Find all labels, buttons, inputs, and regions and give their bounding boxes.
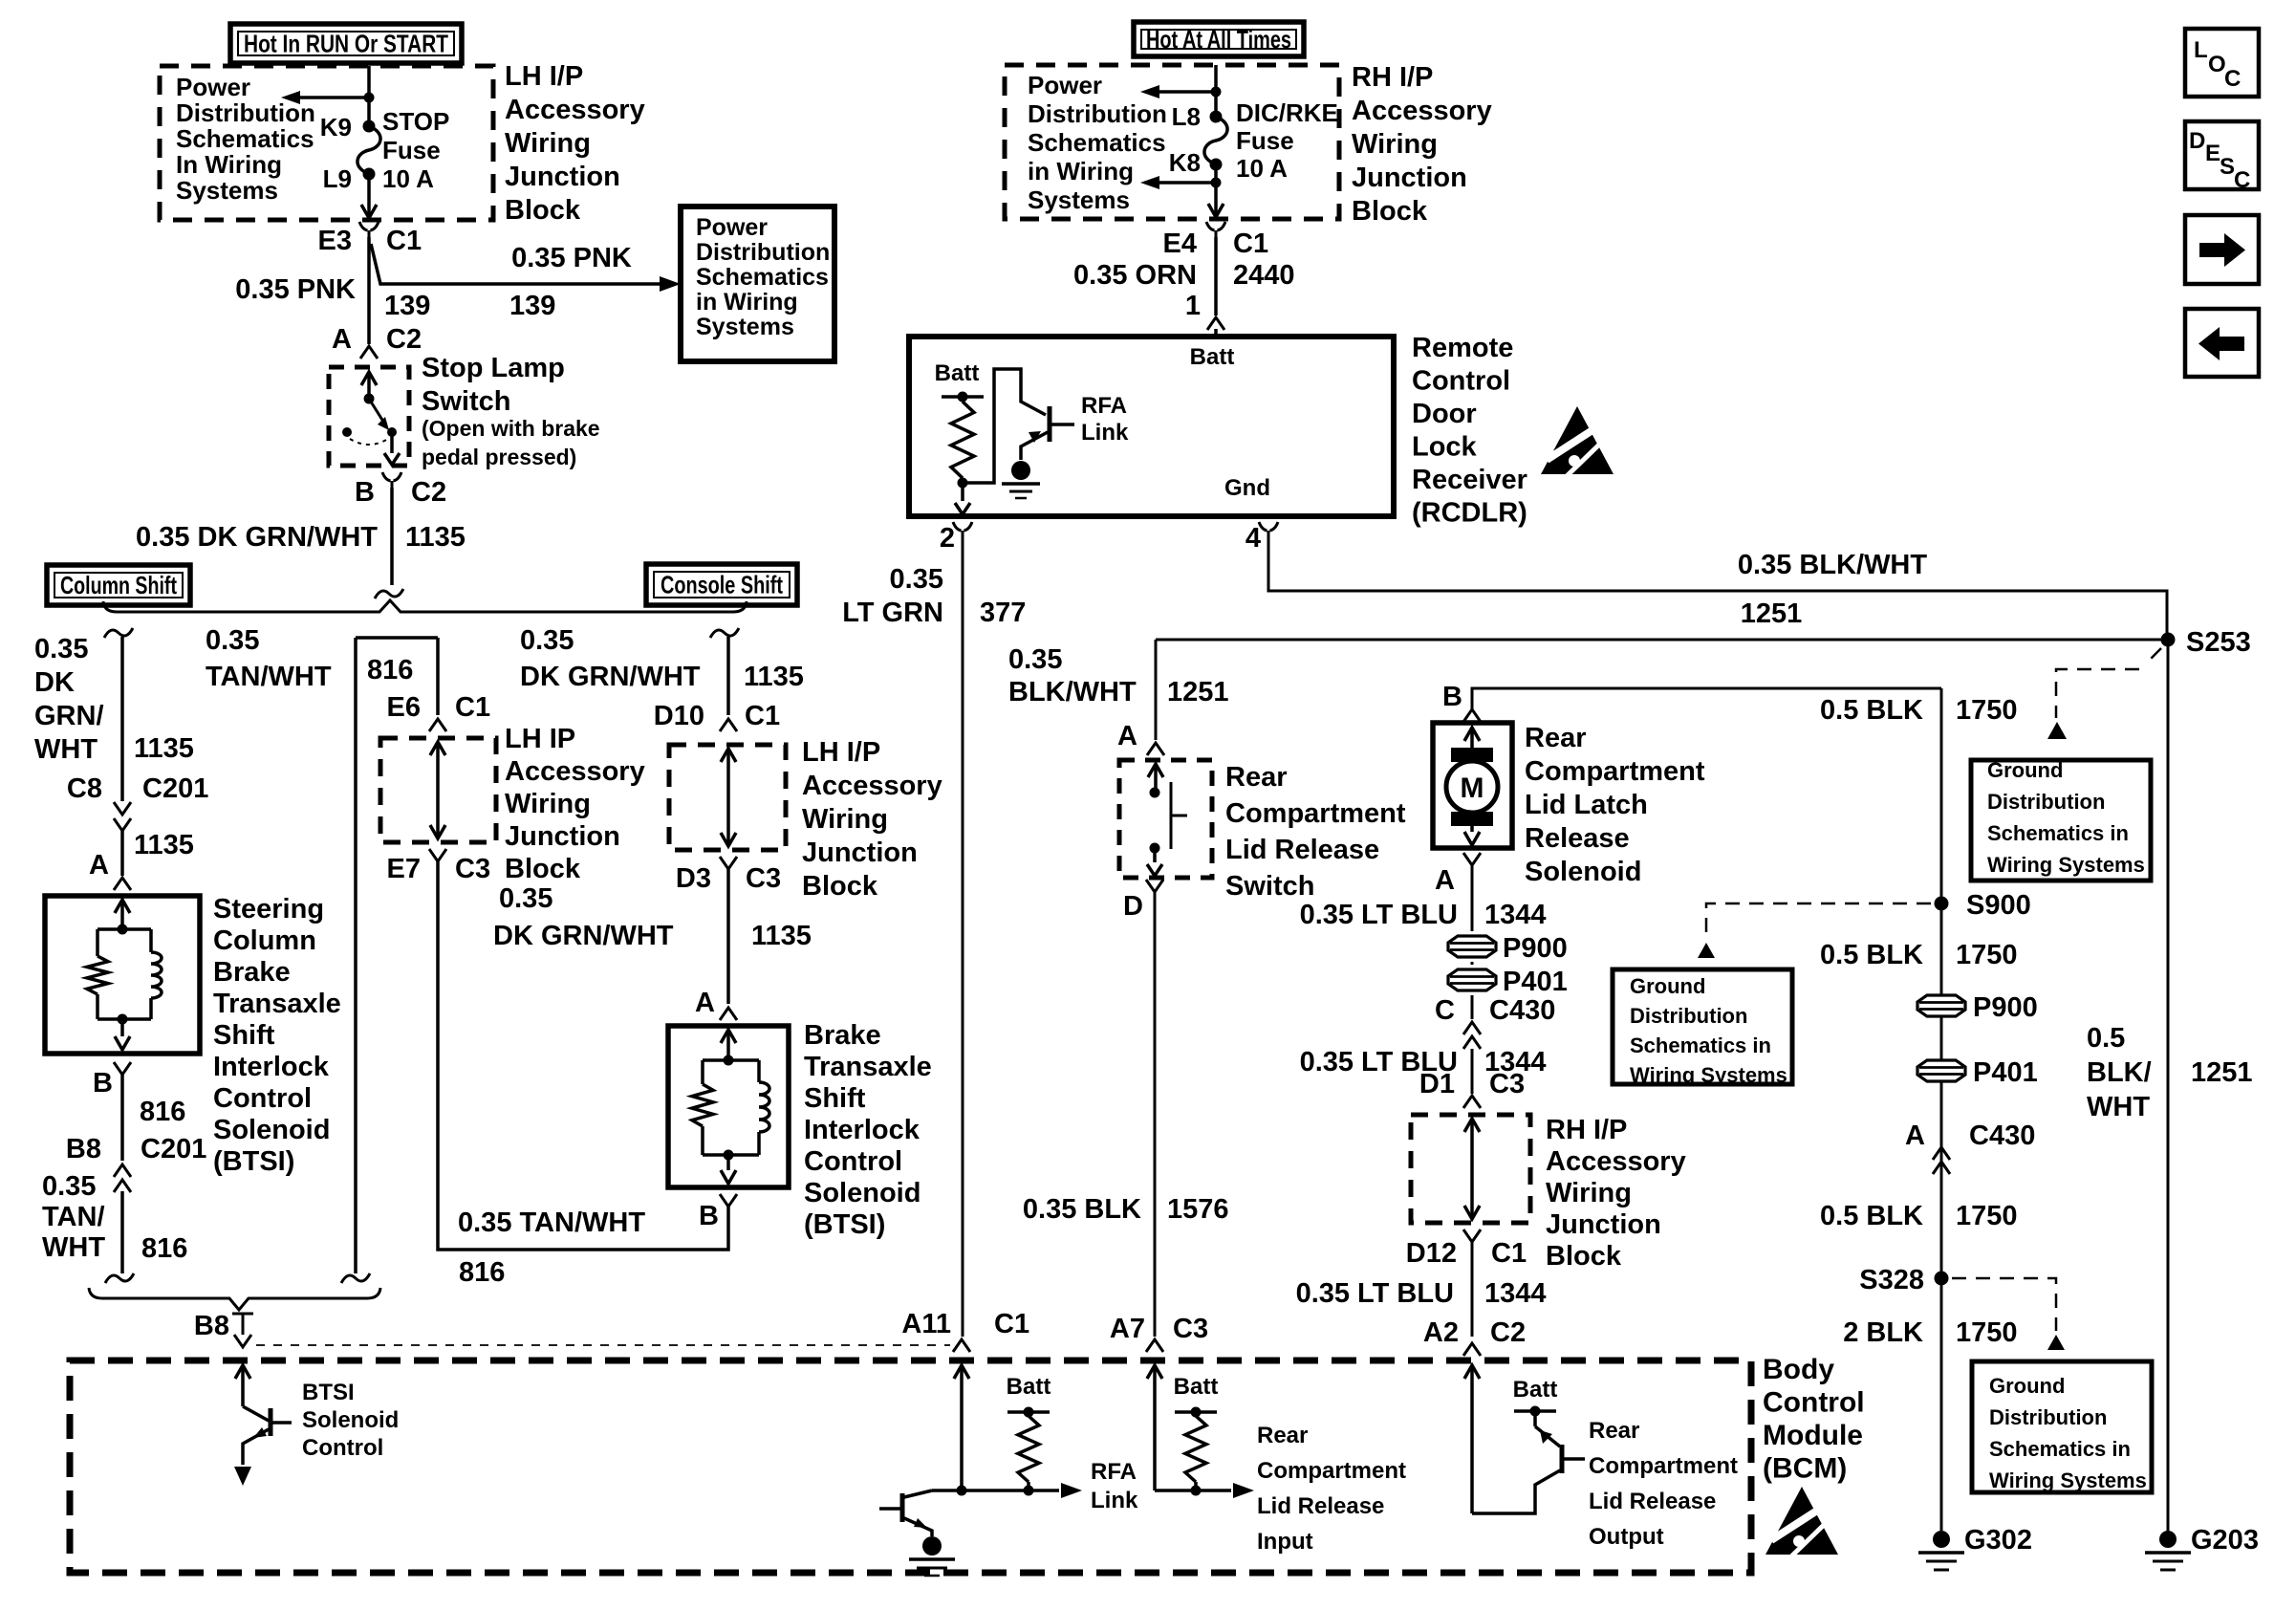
svg-text:Module: Module (1763, 1420, 1863, 1451)
svg-text:BTSI: BTSI (302, 1380, 355, 1405)
nav icon box prev-page arrow (2185, 309, 2259, 377)
svg-text:C1: C1 (386, 226, 422, 256)
internal resistor R1 (951, 402, 974, 478)
transistor Q1 base bar (1048, 406, 1052, 442)
svg-text:Interlock: Interlock (804, 1115, 921, 1145)
svg-text:DK GRN/WHT: DK GRN/WHT (520, 662, 701, 692)
svg-text:Wiring: Wiring (505, 789, 591, 819)
transistor Q3 RFA link driver (904, 1490, 932, 1497)
junction R2 to rail (1024, 1486, 1034, 1496)
junction top of parallel network (118, 925, 128, 935)
svg-text:1251: 1251 (1741, 598, 1803, 629)
svg-text:1135: 1135 (405, 522, 466, 553)
switch pivot contact (364, 394, 375, 404)
svg-text:RH I/P: RH I/P (1546, 1115, 1627, 1145)
svg-text:Switch: Switch (422, 386, 510, 417)
svg-text:D12: D12 (1406, 1238, 1457, 1269)
svg-text:Control: Control (1412, 366, 1510, 397)
svg-text:K8: K8 (1169, 148, 1201, 177)
svg-text:P401: P401 (1503, 967, 1568, 997)
wire: fuse output to block edge with arrow (367, 174, 371, 218)
svg-text:DK: DK (34, 667, 75, 698)
svg-text:C1: C1 (1233, 228, 1268, 259)
connector E4 / C1 (1206, 222, 1215, 230)
svg-text:Block: Block (802, 871, 878, 902)
wire: feed into fuse block (367, 66, 371, 127)
svg-text:C201: C201 (142, 773, 208, 804)
svg-text:(RCDLR): (RCDLR) (1412, 498, 1527, 529)
svg-text:A: A (695, 988, 715, 1018)
svg-text:(BCM): (BCM) (1763, 1453, 1847, 1485)
svg-text:Accessory: Accessory (505, 756, 645, 787)
svg-text:1135: 1135 (744, 662, 804, 692)
svg-text:BLK/: BLK/ (2087, 1057, 2152, 1088)
switch lower contact (1150, 843, 1160, 854)
internal ground (1011, 461, 1030, 480)
svg-text:C: C (2224, 66, 2241, 92)
svg-text:O: O (2208, 52, 2226, 77)
svg-text:Link: Link (1091, 1488, 1138, 1513)
svg-text:0.35: 0.35 (890, 564, 943, 595)
svg-text:816: 816 (140, 1097, 185, 1127)
switch output arrow (1153, 848, 1157, 862)
connector E7 / C3 (429, 849, 446, 861)
svg-text:(BTSI): (BTSI) (213, 1146, 294, 1177)
wire: E7 to console BTSI pin B (0.35 TAN/WHT 816) (438, 861, 728, 1250)
BCM boundary extension (fine dashed) (256, 1344, 950, 1346)
svg-text:0.35: 0.35 (42, 1171, 96, 1202)
svg-text:0.35 TAN/WHT: 0.35 TAN/WHT (458, 1207, 645, 1238)
header box: Hot In RUN Or START (230, 24, 462, 63)
svg-text:B: B (1442, 682, 1462, 712)
svg-text:LH IP: LH IP (505, 724, 575, 754)
solenoid coil L (console BTSI) (757, 1060, 761, 1082)
wire break squiggle (column branch) (104, 628, 133, 638)
svg-text:Rear: Rear (1257, 1423, 1308, 1448)
parallel network top bar (97, 927, 151, 931)
wire: D3 to console BTSI pin A (726, 869, 730, 1004)
svg-text:RFA: RFA (1081, 393, 1127, 419)
svg-text:Shift: Shift (804, 1083, 866, 1114)
svg-text:C430: C430 (1969, 1120, 2035, 1151)
console brake transaxle shift interlock solenoid box (668, 1026, 789, 1187)
switch right contact (387, 427, 397, 437)
svg-text:Accessory: Accessory (1352, 96, 1492, 126)
svg-text:4: 4 (1245, 523, 1261, 554)
svg-text:Release: Release (1525, 823, 1630, 854)
svg-text:Input: Input (1257, 1529, 1313, 1555)
svg-text:1135: 1135 (134, 830, 194, 860)
svg-text:Junction: Junction (802, 838, 918, 868)
wire: C201 to join brace (120, 1191, 124, 1273)
splice S253 (2161, 633, 2176, 647)
svg-text:Remote: Remote (1412, 333, 1513, 363)
inline connector P401 (ground) (1917, 1060, 1965, 1081)
wire: C201 to BTSI pin A (120, 831, 124, 876)
wire break squiggle (105, 1273, 134, 1283)
svg-text:E3: E3 (318, 226, 352, 256)
svg-text:A: A (1905, 1120, 1925, 1151)
svg-text:LH I/P: LH I/P (505, 61, 583, 92)
pin B / connector C2 (382, 472, 391, 481)
motor M symbol (1446, 761, 1498, 813)
svg-text:S253: S253 (2186, 627, 2251, 658)
svg-text:Ground: Ground (1987, 758, 2063, 782)
svg-text:Junction: Junction (505, 162, 620, 192)
svg-text:Schematics in: Schematics in (1989, 1437, 2131, 1461)
svg-text:In Wiring: In Wiring (176, 150, 282, 179)
svg-text:P900: P900 (1973, 992, 2038, 1023)
svg-text:C201: C201 (141, 1134, 206, 1164)
connector D3 / C3 (720, 857, 737, 869)
wire: P401 to C430 (1471, 995, 1474, 1019)
switch travel arc (dotted) (350, 439, 388, 445)
svg-text:Power: Power (696, 214, 768, 241)
svg-text:Schematics: Schematics (176, 124, 314, 153)
wire: S253 to rear compartment lid release switch (1156, 639, 2168, 642)
svg-text:Link: Link (1081, 420, 1129, 446)
motor brush bar bottom (1451, 812, 1493, 826)
svg-text:1: 1 (1185, 291, 1201, 321)
svg-text:(BTSI): (BTSI) (804, 1209, 885, 1240)
svg-text:816: 816 (141, 1233, 187, 1264)
internal rail RFA link junction (957, 1486, 967, 1496)
svg-text:D: D (2189, 128, 2205, 154)
svg-text:RH I/P: RH I/P (1352, 62, 1433, 93)
svg-text:WHT: WHT (34, 734, 97, 765)
pin 2 of RCDLR (953, 522, 962, 531)
svg-text:Control: Control (302, 1435, 383, 1461)
svg-text:816: 816 (367, 655, 413, 685)
svg-text:0.35 LT BLU: 0.35 LT BLU (1296, 1278, 1454, 1309)
svg-text:Fuse: Fuse (382, 136, 441, 164)
junction bottom of parallel network (724, 1150, 734, 1161)
svg-text:LH I/P: LH I/P (802, 737, 880, 768)
svg-text:Distribution: Distribution (1989, 1405, 2107, 1429)
svg-text:C2: C2 (1490, 1317, 1526, 1348)
svg-text:Accessory: Accessory (1546, 1146, 1686, 1177)
svg-text:Systems: Systems (1028, 185, 1130, 214)
svg-text:G203: G203 (2191, 1525, 2259, 1556)
svg-text:B: B (93, 1068, 113, 1099)
ground distribution schematics reference box (upper) (1971, 760, 2151, 881)
splice S900 (1935, 897, 1949, 911)
svg-text:L: L (2194, 37, 2208, 63)
BTSI solenoid output arrow (120, 1019, 124, 1036)
wire: S253 down to G203, 0.5 BLK/WHT 1251 (2167, 640, 2170, 1531)
ground G302 (1933, 1531, 1950, 1548)
svg-text:S: S (2220, 154, 2235, 180)
connector D12 / C1 (1463, 1229, 1481, 1242)
svg-text:Systems: Systems (696, 314, 794, 340)
pin B of steering BTSI (114, 1062, 131, 1075)
switch arm (369, 399, 385, 424)
internal wire RFA link (932, 1489, 1059, 1492)
svg-text:1251: 1251 (1167, 677, 1229, 707)
svg-text:0.35: 0.35 (206, 625, 259, 656)
resistor R (console BTSI) (701, 1060, 704, 1084)
svg-text:Block: Block (505, 195, 581, 226)
svg-text:Power: Power (1028, 71, 1102, 99)
svg-text:Rear: Rear (1525, 723, 1587, 753)
svg-text:Gnd: Gnd (1224, 475, 1270, 501)
power distribution schematics reference box (681, 207, 834, 361)
svg-text:Column: Column (213, 925, 316, 956)
svg-text:A: A (332, 324, 352, 355)
svg-text:Junction: Junction (505, 821, 620, 852)
svg-text:C3: C3 (1173, 1314, 1208, 1344)
wire between P900 and P401 (1471, 962, 1474, 965)
svg-text:C3: C3 (746, 863, 781, 894)
svg-text:B: B (699, 1201, 719, 1231)
wire break squiggle (console branch) (710, 628, 739, 638)
svg-text:DK GRN/WHT: DK GRN/WHT (493, 921, 674, 951)
wire: drop to lid release switch pin A (1155, 640, 1158, 740)
svg-text:Console Shift: Console Shift (661, 571, 783, 599)
switch wire in with arrow (361, 372, 377, 385)
svg-text:Solenoid: Solenoid (302, 1407, 399, 1433)
svg-text:Receiver: Receiver (1412, 465, 1527, 495)
svg-text:RFA: RFA (1091, 1459, 1137, 1485)
svg-text:L9: L9 (323, 164, 352, 193)
svg-text:Block: Block (505, 854, 581, 884)
svg-text:1750: 1750 (1956, 1317, 2018, 1348)
svg-text:BLK/WHT: BLK/WHT (1008, 677, 1137, 707)
wire: arrow to power distribution (upper) (1153, 90, 1216, 94)
internal wire to transistor (963, 369, 1046, 483)
junction block feed-through arrows (721, 749, 736, 762)
svg-text:Lid Release: Lid Release (1589, 1489, 1716, 1514)
svg-text:Column Shift: Column Shift (60, 571, 177, 599)
BCM input arrow B8 (235, 1365, 250, 1379)
svg-text:Hot At All Times: Hot At All Times (1146, 25, 1291, 54)
ground distribution reference from S328 (dashed) (1952, 1278, 2056, 1331)
svg-text:Power: Power (176, 73, 250, 101)
inline connector P401 (1448, 969, 1496, 990)
svg-text:Transaxle: Transaxle (804, 1052, 932, 1082)
svg-text:1750: 1750 (1956, 1201, 2018, 1231)
svg-text:Distribution: Distribution (696, 239, 830, 266)
wire: fuse output to block edge with arrow (1214, 163, 1218, 217)
ground distribution schematics reference box (lower) (1972, 1361, 2152, 1492)
svg-text:B: B (355, 477, 375, 508)
svg-text:1750: 1750 (1956, 695, 2018, 726)
svg-text:139: 139 (509, 291, 555, 321)
svg-text:377: 377 (980, 598, 1026, 628)
svg-text:Batt: Batt (1513, 1377, 1558, 1403)
svg-text:Interlock: Interlock (213, 1052, 330, 1082)
junction block feed-through arrows (430, 742, 445, 755)
remote control door lock receiver U1 (RCDLR) box (909, 337, 1394, 516)
wire: stop lamp switch output 0.35 DK GRN/WHT 1135 (390, 488, 394, 585)
svg-text:Stop Lamp: Stop Lamp (422, 353, 565, 383)
svg-text:E4: E4 (1163, 228, 1197, 259)
svg-text:Ground: Ground (1630, 974, 1705, 998)
wire: D12 to BCM A2, 0.35 LT BLU 1344 (1471, 1242, 1474, 1337)
solenoid coil L1 (149, 929, 153, 952)
svg-text:Fuse: Fuse (1236, 126, 1294, 155)
wire: E6 pin stub (436, 638, 440, 715)
svg-text:Body: Body (1763, 1354, 1834, 1385)
solenoid input arrow (1464, 728, 1480, 741)
stop lamp switch S1 dashed outline (329, 367, 409, 466)
svg-text:Rear: Rear (1225, 762, 1288, 793)
internal ground (RFA driver) (922, 1536, 942, 1556)
svg-text:Door: Door (1412, 399, 1477, 429)
LH IP accessory wiring junction block (E6/E7) dashed outline (380, 738, 496, 842)
BCM input arrow A2 (1464, 1365, 1480, 1379)
svg-text:E: E (2205, 141, 2220, 166)
pin 4 of RCDLR (1259, 522, 1267, 531)
RH I/P accessory wiring junction block (D1/D12) dashed outline (1411, 1115, 1530, 1223)
svg-text:0.35 BLK: 0.35 BLK (1023, 1194, 1141, 1225)
svg-text:C3: C3 (1489, 1069, 1525, 1099)
svg-text:P401: P401 (1973, 1057, 2038, 1088)
svg-text:0.35: 0.35 (34, 634, 88, 664)
svg-text:0.35 PNK: 0.35 PNK (511, 243, 632, 273)
svg-text:Distribution: Distribution (176, 98, 315, 127)
svg-text:0.5 BLK: 0.5 BLK (1820, 940, 1923, 970)
junction top of parallel network (724, 1055, 734, 1066)
svg-text:E6: E6 (387, 692, 421, 723)
BTSI output arrow (726, 1155, 730, 1170)
svg-text:Control: Control (804, 1146, 902, 1177)
svg-text:Block: Block (1352, 196, 1428, 227)
nav icon box LOC (2185, 29, 2259, 97)
svg-text:Shift: Shift (213, 1020, 275, 1051)
svg-text:C3: C3 (455, 854, 490, 884)
option box: Console Shift (646, 564, 797, 605)
svg-text:C8: C8 (67, 773, 102, 804)
svg-text:0.35 DK GRN/WHT: 0.35 DK GRN/WHT (136, 522, 378, 553)
svg-text:M: M (1461, 772, 1484, 804)
fuse F1 STOP 10A (357, 126, 380, 174)
pin B8 of BCM (232, 1313, 253, 1316)
svg-text:0.35 BLK/WHT: 0.35 BLK/WHT (1738, 550, 1927, 580)
switch output wire with arrow (390, 432, 394, 453)
brace joining column/console BTSI returns to BCM B8 (89, 1288, 380, 1310)
inline connector P900 (1448, 936, 1496, 957)
svg-text:S328: S328 (1859, 1265, 1924, 1295)
resistor R3 lid release input pullup (1185, 1416, 1206, 1482)
nav icon box DESC (2185, 121, 2259, 189)
svg-text:Block: Block (1546, 1241, 1622, 1272)
svg-text:Solenoid: Solenoid (1525, 857, 1641, 887)
svg-text:Junction: Junction (1352, 163, 1467, 193)
svg-text:1344: 1344 (1484, 1278, 1547, 1309)
svg-text:D1: D1 (1419, 1069, 1455, 1099)
svg-text:Distribution: Distribution (1987, 790, 2105, 814)
svg-text:C2: C2 (386, 324, 422, 355)
svg-text:Output: Output (1589, 1524, 1664, 1550)
switch left contact (342, 427, 352, 437)
internal Batt rail (942, 395, 984, 399)
svg-text:Solenoid: Solenoid (213, 1115, 330, 1145)
wire break squiggle (816 wire bottom) (341, 1273, 370, 1283)
svg-text:1750: 1750 (1956, 940, 2018, 970)
option box: Column Shift (47, 565, 190, 605)
svg-text:0.35 PNK: 0.35 PNK (235, 274, 356, 305)
switch input arrow (1148, 764, 1163, 777)
junction bottom of parallel network (118, 1014, 128, 1025)
svg-text:139: 139 (384, 291, 430, 321)
ground G203 (2159, 1531, 2177, 1548)
svg-text:C1: C1 (1491, 1238, 1527, 1269)
internal wire pin2 output with arrow (961, 483, 964, 501)
inline connector P900 (ground) (1917, 995, 1965, 1016)
svg-text:0.35: 0.35 (520, 625, 574, 656)
svg-text:Wiring: Wiring (505, 128, 591, 159)
svg-text:in Wiring: in Wiring (696, 289, 798, 315)
wire: branch to power distribution schematics (0.35 PNK 139) (371, 244, 669, 284)
svg-text:Schematics: Schematics (696, 264, 829, 291)
svg-text:1135: 1135 (751, 921, 812, 951)
svg-text:Batt: Batt (1174, 1374, 1219, 1400)
svg-text:Compartment: Compartment (1257, 1458, 1406, 1484)
LH I/P junction block (fuse block) dashed outline (160, 66, 493, 220)
wire: C430 to D1, 0.35 LT BLU 1344 (1471, 1049, 1474, 1094)
junction on feed wire (364, 93, 375, 103)
svg-text:0.5 BLK: 0.5 BLK (1820, 1201, 1923, 1231)
svg-text:D10: D10 (654, 701, 704, 731)
BCM input arrow A7 (1147, 1365, 1162, 1379)
svg-text:C1: C1 (994, 1309, 1029, 1339)
parallel network bottom bar (703, 1153, 759, 1157)
transistor Q4 lid release output driver (1533, 1411, 1537, 1426)
svg-text:D3: D3 (676, 863, 711, 894)
transistor Q1 base lead RFA Link (1050, 423, 1074, 426)
resistor R (BTSI suppression) (96, 929, 99, 956)
svg-text:0.35: 0.35 (1008, 644, 1062, 675)
svg-text:Wiring Systems: Wiring Systems (1630, 1063, 1787, 1087)
wire: console branch 0.35 DK GRN/WHT 1135 (726, 637, 730, 715)
wire: 0.35 TAN/WHT 816 from E6 junction header (356, 636, 438, 640)
svg-text:LT GRN: LT GRN (842, 598, 943, 628)
BCM input arrow A11 (954, 1365, 969, 1379)
svg-text:Wiring Systems: Wiring Systems (1989, 1469, 2147, 1492)
LH I/P accessory wiring junction block (D10/D3) dashed outline (669, 745, 786, 850)
wire: arrow to power distribution (lower) (1153, 181, 1216, 185)
svg-text:0.35 ORN: 0.35 ORN (1073, 260, 1197, 291)
header box: Hot At All Times (1134, 22, 1304, 56)
fuse F2 DIC/RKE 10A (1204, 117, 1227, 164)
svg-text:10 A: 10 A (382, 164, 434, 193)
svg-text:B8: B8 (66, 1134, 101, 1164)
ESD sensitive symbol (1541, 406, 1614, 476)
wire: E3 to branch point (367, 237, 371, 344)
svg-text:1251: 1251 (2191, 1057, 2253, 1088)
svg-text:DIC/RKE: DIC/RKE (1236, 98, 1338, 127)
svg-text:Steering: Steering (213, 894, 324, 925)
ground distribution reference from S253 (dashed) (2056, 648, 2161, 718)
svg-text:S900: S900 (1966, 890, 2031, 921)
ground distribution schematics reference box (middle) (1613, 969, 1792, 1084)
svg-text:(Open with brake: (Open with brake (422, 416, 600, 441)
svg-text:Ground: Ground (1989, 1374, 2065, 1398)
svg-text:Transaxle: Transaxle (213, 989, 341, 1019)
svg-text:Lid Release: Lid Release (1225, 835, 1379, 865)
junction block feed-through arrows (1464, 1119, 1480, 1132)
wire: solenoid B to ground bus (1472, 688, 1941, 712)
svg-text:Hot In RUN Or START: Hot In RUN Or START (244, 30, 448, 58)
svg-text:2: 2 (940, 523, 955, 554)
svg-text:WHT: WHT (2087, 1092, 2150, 1122)
svg-text:L8: L8 (1172, 102, 1201, 131)
wire: arrow to power distribution (left) (294, 96, 369, 99)
svg-text:C1: C1 (455, 692, 490, 723)
svg-text:816: 816 (459, 1257, 505, 1288)
steering column BTSI solenoid box (45, 896, 200, 1054)
